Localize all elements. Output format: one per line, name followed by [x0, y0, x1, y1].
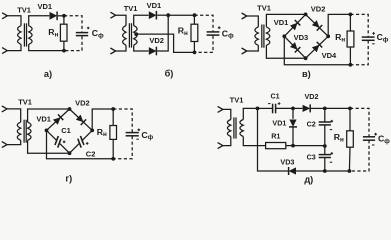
transformer T1 core (b) — [128, 23, 130, 47]
wire VD3 to C3 bottom (d) — [296, 170, 325, 172]
bridge arm VD3 wire (v) — [284, 36, 305, 58]
wire Rn bottom lead (d) — [348, 147, 351, 171]
svg-text:а): а) — [44, 69, 52, 79]
wire input top to primary (v) — [247, 16, 258, 27]
polarity - of C3 (d) — [330, 161, 332, 163]
wire Rn top lead (g) — [112, 109, 114, 126]
wire input top to transformer primary (a) — [7, 16, 21, 26]
resistor Rn (g) — [110, 126, 117, 140]
wire node B to C2-C3 node (d) — [293, 145, 325, 147]
svg-text:VD3: VD3 — [280, 157, 294, 166]
wire input top to primary (d) — [223, 109, 231, 119]
resistor Rn (a) — [60, 24, 67, 41]
dashed wire to filter cap top (a) — [64, 16, 82, 32]
svg-text:г): г) — [65, 174, 72, 184]
wire Rn top lead (v) — [349, 14, 351, 31]
wire Rn bottom lead (v) — [349, 47, 351, 65]
node diamond bottom corner (g) — [68, 151, 72, 155]
wire VD2 to C2 node (d) — [311, 107, 325, 109]
svg-text:в): в) — [302, 69, 311, 79]
resistor Rn (d) — [347, 131, 354, 147]
diode VD1 (v) — [290, 20, 301, 31]
dashed wire to cap top (d) — [350, 108, 369, 136]
wire input bottom to primary (g) — [7, 140, 21, 144]
polarity + of Cf (v) — [372, 32, 375, 35]
node output+ (g) — [111, 107, 115, 111]
wire Rn to bottom rail (a) — [63, 41, 65, 50]
node bridge bottom corner (v) — [304, 56, 308, 60]
transformer T1 core (v) — [261, 25, 263, 48]
resistor Rn (b) — [191, 24, 198, 41]
polarity + of Cf (d) — [374, 133, 377, 136]
polarity + of C3 (d) — [331, 152, 334, 155]
wire node to resistor Rn (a) — [63, 16, 65, 24]
node T1 top rail junction (d) — [256, 107, 260, 111]
wire input bottom to primary (b) — [116, 45, 126, 51]
wire input top to primary (g) — [7, 109, 21, 122]
wire VD1 cathode to node (a) — [58, 15, 64, 17]
input terminal arrow bottom-left (v) — [242, 48, 247, 54]
capacitor C2 (d) — [324, 110, 326, 122]
wire secondary bottom to VD2 (b) — [134, 45, 149, 51]
wire C1 to node A (d) — [276, 107, 293, 109]
bridge arm VD2 wire (v) — [306, 14, 329, 36]
svg-text:VD1: VD1 — [272, 119, 286, 128]
polarity + of C1 (g) — [63, 141, 66, 144]
wire input bottom to transformer primary (a) — [7, 44, 21, 50]
input terminal arrow top-left (b) — [110, 12, 115, 18]
svg-text:VD1: VD1 — [38, 2, 53, 11]
transformer T1 secondary winding (g) — [28, 122, 31, 140]
polarity + of Cf (b) — [218, 26, 221, 29]
polarity + of Cf (a) — [87, 27, 90, 30]
dashed wire to cap top (b) — [195, 15, 214, 31]
node C2-C3 midpoint (d) — [323, 144, 327, 148]
svg-text:VD3: VD3 — [294, 33, 309, 42]
wire secondary bottom to bridge bottom corner (v) — [266, 45, 305, 58]
node C3 bottom (d) — [323, 169, 327, 173]
wire secondary top to diode VD1 (a) — [29, 16, 50, 26]
input terminal arrow bottom-left (a) — [2, 48, 7, 54]
polarity + of C1 (d) — [278, 102, 281, 105]
transformer T1 primary winding (v) — [255, 27, 258, 45]
node diamond left corner (g) — [45, 129, 49, 133]
svg-text:VD1: VD1 — [36, 115, 51, 124]
input terminal arrow bottom-left (d) — [218, 143, 223, 149]
node C2 top (d) — [323, 107, 327, 111]
svg-text:д): д) — [304, 174, 313, 184]
svg-text:TV1: TV1 — [257, 3, 271, 12]
svg-text:б): б) — [165, 69, 174, 79]
diode VD3 pointing left (d) — [289, 167, 296, 175]
resistor R1 (d) — [266, 143, 286, 149]
wire plus output (g) — [92, 109, 113, 130]
svg-text:VD2: VD2 — [305, 92, 319, 101]
capacitor C3 (d) — [324, 148, 326, 155]
wire C2 node to Rn node (d) — [325, 107, 350, 109]
node output- (g) — [111, 157, 115, 161]
dashed wire to cap top (v) — [350, 14, 368, 36]
node diamond top corner (g) — [68, 107, 72, 111]
capacitor Cf (d) — [363, 136, 375, 138]
transformer T1 primary winding (a) — [18, 26, 21, 45]
capacitor C2 on arm (g) — [78, 139, 81, 148]
input terminal arrow bottom-left (g) — [2, 142, 7, 148]
wire secondary top to diamond top corner (g) — [28, 109, 70, 122]
capacitor Cf (g) — [126, 132, 139, 134]
transformer T1 secondary winding (a) — [29, 26, 32, 45]
dashed wire cap bottom (g) — [113, 136, 132, 159]
input terminal arrow top-left (d) — [218, 106, 223, 112]
svg-text:VD1: VD1 — [147, 1, 162, 10]
wire input top to primary (b) — [116, 15, 126, 25]
node output- (b) — [193, 51, 197, 55]
svg-text:TV1: TV1 — [17, 5, 31, 14]
wire Rn bottom lead (g) — [112, 139, 114, 158]
wire T1 down riser (d) — [258, 108, 289, 171]
svg-text:VD4: VD4 — [322, 51, 337, 60]
transformer T1 primary winding (b) — [123, 26, 126, 46]
node output+ (b) — [193, 13, 197, 17]
diode VD3 (v) — [290, 42, 301, 53]
wire secondary top to top rail (d) — [243, 108, 257, 119]
capacitor C1 on arm (g) — [55, 136, 58, 145]
node diamond right corner (g) — [90, 129, 94, 133]
input terminal arrow top-left (g) — [2, 106, 7, 112]
diode VD2 (v) — [312, 20, 323, 31]
wire Rn top lead (b) — [193, 15, 195, 24]
diamond arm VD2 wire (g) — [70, 109, 93, 130]
svg-text:С1: С1 — [61, 126, 71, 135]
wire bottom rail (a) — [29, 44, 64, 50]
svg-text:VD2: VD2 — [75, 98, 90, 107]
wire secondary top to bridge top corner (v) — [266, 14, 305, 27]
diode VD1 (a) — [50, 12, 58, 21]
transformer T1 core (a) — [23, 23, 25, 46]
polarity + of C2 (g) — [86, 142, 89, 145]
svg-text:C3: C3 — [307, 153, 316, 162]
circuit a: half-wave rectifier — [0, 0, 1, 1]
capacitor Cf (a) — [76, 32, 88, 34]
circuit g: voltage doubler — [0, 0, 1, 1]
wire input bottom to primary (v) — [247, 45, 258, 51]
transformer T1 primary winding (d) — [227, 120, 230, 137]
diode VD2 (b) — [149, 47, 157, 56]
wire bridge minus output (v) — [284, 36, 350, 65]
circuit b: full-wave center-tap rectifier — [0, 0, 1, 1]
dashed wire to cap top (g) — [113, 109, 132, 132]
wire bottom rail to Rn (d) — [325, 170, 350, 172]
transformer T1 secondary winding (v) — [266, 27, 269, 45]
transformer T1 core (d) — [233, 117, 235, 138]
wire top rail to C1 (d) — [258, 107, 273, 109]
wire secondary bottom to R1 (d) — [243, 137, 265, 146]
svg-text:С2: С2 — [86, 150, 96, 159]
input terminal arrow top-left (a) — [2, 13, 7, 19]
node output- (v) — [349, 63, 353, 67]
node bridge left corner (v) — [282, 34, 286, 38]
dashed wire filter cap bottom (a) — [64, 36, 82, 50]
wire top rail to Rn (b) — [168, 14, 194, 16]
wire VD1 cathode to node (b) — [157, 14, 168, 16]
diode VD4 (v) — [312, 42, 323, 53]
wire center tap to bottom rail (b) — [136, 34, 194, 52]
node output- (a) — [62, 49, 66, 53]
node bridge top corner (v) — [304, 13, 308, 17]
diamond arm VD1 wire (g) — [47, 109, 70, 130]
resistor Rn (v) — [347, 31, 354, 47]
wire bridge plus output (v) — [328, 14, 350, 36]
svg-text:VD2: VD2 — [149, 36, 164, 45]
bridge arm VD1 wire (v) — [284, 14, 305, 36]
node output+ (v) — [349, 13, 353, 17]
transformer T1 secondary winding (d) — [240, 120, 243, 137]
wire secondary top to VD1 (b) — [134, 15, 149, 25]
capacitor C1 series (d) — [272, 104, 274, 114]
wire minus output (g) — [47, 130, 114, 158]
dashed wire cap bottom (b) — [195, 36, 214, 53]
bridge arm VD4 wire (v) — [306, 36, 329, 58]
diode VD2 (d) — [303, 104, 311, 112]
wire Rn top lead (d) — [349, 108, 351, 130]
diode VD1 (b) — [149, 11, 157, 20]
polarity - of C1 (d) — [268, 103, 270, 105]
diamond arm C1 wire (g) — [47, 130, 57, 140]
node center tap (b) — [134, 32, 138, 36]
wire node A to VD2 (d) — [293, 107, 302, 109]
polarity - of Cf (d) — [372, 144, 374, 146]
node A after C1 (d) — [291, 107, 295, 111]
node VD1-VD2 junction (b) — [166, 13, 170, 17]
capacitor Cf (b) — [207, 31, 220, 33]
wire VD2 cathode riser to top rail (b) — [157, 15, 168, 51]
dashed wire cap bottom (d) — [349, 140, 369, 171]
svg-text:C1: C1 — [270, 92, 279, 101]
svg-text:VD2: VD2 — [311, 5, 326, 14]
svg-text:TV1: TV1 — [124, 4, 138, 13]
input terminal arrow bottom-left (b) — [110, 48, 115, 54]
circuit d: voltage multiplier — [0, 0, 1, 1]
wire Rn bottom lead (b) — [193, 42, 195, 53]
diode VD2 (g) — [76, 114, 87, 125]
diode VD1 (g) — [53, 114, 64, 125]
capacitor Cf (v) — [362, 36, 375, 38]
svg-text:C2: C2 — [307, 119, 316, 128]
svg-text:VD1: VD1 — [274, 18, 289, 27]
transformer T1 primary winding (g) — [17, 122, 20, 140]
input terminal arrow top-left (v) — [242, 13, 247, 19]
node output+ (a) — [62, 14, 66, 18]
node output+ top rail (d) — [348, 107, 352, 111]
polarity + of C2 (d) — [331, 120, 334, 123]
wire input bottom to primary (d) — [223, 137, 231, 146]
diamond arm C2 wire (g) — [70, 143, 80, 153]
svg-text:TV1: TV1 — [18, 98, 32, 107]
diode VD1 vertical (d) — [292, 108, 294, 118]
node output- bottom rail (d) — [348, 169, 352, 173]
polarity - of C2 (d) — [330, 129, 332, 131]
polarity + of Cf (g) — [138, 129, 141, 132]
transformer T1 core (g) — [23, 120, 25, 143]
wire R1 to node B (d) — [286, 145, 293, 147]
wire secondary bottom to diamond bottom corner (g) — [28, 140, 70, 153]
svg-text:R1: R1 — [271, 132, 280, 141]
svg-text:TV1: TV1 — [230, 96, 244, 105]
circuit v: bridge rectifier — [0, 0, 1, 1]
dashed wire cap bottom (v) — [350, 40, 368, 65]
node bridge right corner (v) — [326, 34, 330, 38]
node B below VD1 (d) — [291, 144, 295, 148]
transformer T1 secondary winding (b) — [134, 26, 137, 46]
